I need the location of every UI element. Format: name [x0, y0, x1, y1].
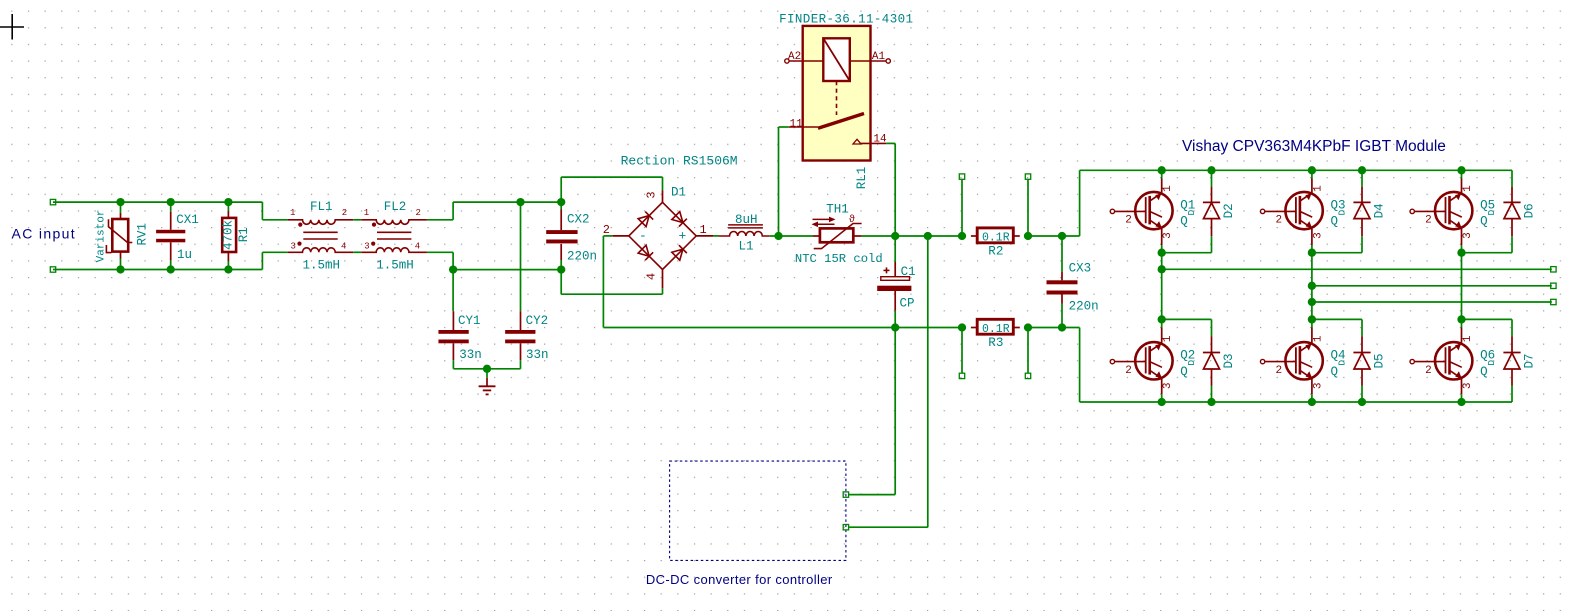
- junction: [1457, 315, 1465, 323]
- junction: [224, 198, 232, 206]
- resistor R3 0.1R: [971, 319, 1020, 334]
- pin numbers Q4: [1276, 335, 1325, 389]
- svg-text:D: D: [1186, 209, 1197, 215]
- inductor FL1: [288, 220, 354, 253]
- wire: [1079, 170, 1081, 236]
- CX2 bottom lead: [560, 244, 562, 270]
- thermistor TH1 NTC: [812, 217, 862, 249]
- wire: [713, 235, 719, 237]
- wire: [561, 176, 662, 178]
- svg-text:11: 11: [790, 119, 804, 131]
- svg-text:1: 1: [1462, 335, 1474, 342]
- wire: [894, 143, 896, 236]
- svg-text:1: 1: [700, 223, 707, 237]
- wire: [1079, 328, 1081, 403]
- junction: [1158, 315, 1166, 323]
- capacitor CX1: [170, 202, 172, 230]
- svg-text:D3: D3: [1222, 353, 1236, 368]
- wire: [961, 328, 963, 373]
- svg-text:Q: Q: [1331, 365, 1339, 379]
- ground: [479, 369, 496, 395]
- transistor Q2: [1110, 328, 1172, 395]
- wire: [927, 236, 929, 527]
- svg-text:FL2: FL2: [384, 200, 407, 214]
- wire: [1461, 245, 1463, 253]
- svg-text:C1: C1: [901, 265, 916, 279]
- junction: [1058, 323, 1066, 331]
- svg-text:Rection RS1506M: Rection RS1506M: [621, 154, 738, 169]
- svg-text:3: 3: [364, 241, 369, 251]
- svg-text:CY2: CY2: [526, 314, 549, 328]
- capacitor C1 CP polarized: [877, 236, 911, 328]
- svg-text:1.5mH: 1.5mH: [303, 258, 341, 272]
- svg-text:D2: D2: [1222, 203, 1236, 218]
- junction: [1158, 166, 1166, 174]
- junction: [1457, 166, 1465, 174]
- wire: [262, 251, 287, 253]
- bridge pin numbers: [603, 191, 707, 280]
- capacitor CX2 220n: [560, 202, 562, 230]
- junction: [1158, 249, 1166, 257]
- wire: [1162, 318, 1212, 320]
- junction: [1207, 398, 1215, 406]
- junction: [483, 365, 491, 373]
- svg-text:1: 1: [1312, 335, 1324, 342]
- wire: [1511, 236, 1513, 253]
- svg-text:1: 1: [1312, 185, 1324, 192]
- bridge polarity marks: [639, 229, 687, 244]
- svg-text:CX2: CX2: [567, 213, 590, 227]
- junction: [891, 323, 899, 331]
- svg-text:NTC 15R cold: NTC 15R cold: [795, 252, 883, 266]
- svg-text:A1: A1: [872, 51, 886, 63]
- terminal stub R2 left: [959, 174, 964, 179]
- junction: [516, 198, 524, 206]
- pin numbers Q1: [1125, 185, 1174, 239]
- svg-text:1: 1: [290, 208, 295, 218]
- pin numbers Q6: [1425, 335, 1474, 389]
- wire: [1027, 328, 1029, 373]
- wire: [262, 219, 287, 221]
- wire: [1211, 236, 1213, 253]
- bridge rectifier D1 Rection RS1506M: [613, 190, 713, 288]
- svg-text:D7: D7: [1523, 353, 1537, 368]
- wire: [662, 177, 664, 190]
- capacitor CY2 plates: [505, 330, 535, 343]
- svg-text:2: 2: [603, 223, 610, 237]
- relay coil: [823, 38, 850, 81]
- terminal phase output 3: [1551, 299, 1556, 304]
- wire: [894, 328, 896, 495]
- junction: [958, 232, 966, 240]
- transistor Q6: [1410, 328, 1472, 395]
- svg-text:ϑ: ϑ: [849, 213, 855, 225]
- wire: [1361, 319, 1363, 336]
- inductor L1 8uH: [719, 225, 770, 236]
- wire: [1312, 318, 1362, 320]
- svg-text:D: D: [1486, 209, 1497, 215]
- wire: [1080, 401, 1512, 403]
- terminal DC-DC pin plus: [843, 525, 848, 530]
- junction: [1358, 166, 1366, 174]
- wire: [1161, 394, 1163, 402]
- relay pin A2: [785, 51, 824, 63]
- pin numbers Q5: [1425, 185, 1474, 239]
- svg-text:470k: 470k: [222, 220, 236, 250]
- junction: [1308, 282, 1316, 290]
- relay switch contact pin 11: [789, 114, 864, 131]
- transistor Q5: [1410, 178, 1472, 245]
- wire: [561, 293, 662, 295]
- svg-text:2: 2: [1276, 215, 1283, 227]
- wire: [1311, 170, 1313, 178]
- svg-text:FL1: FL1: [310, 200, 333, 214]
- relay actuator dashed line: [836, 81, 838, 115]
- svg-text:33n: 33n: [526, 348, 549, 362]
- svg-text:33n: 33n: [459, 348, 482, 362]
- transistor Q3: [1260, 178, 1322, 245]
- wire CX1 bottom lead: [170, 242, 172, 269]
- wire: [1361, 236, 1363, 253]
- svg-text:Vishay CPV363M4KPbF IGBT Modul: Vishay CPV363M4KPbF IGBT Module: [1182, 138, 1446, 155]
- junction: [1207, 166, 1215, 174]
- wire: [961, 180, 963, 236]
- junction: [1024, 323, 1032, 331]
- svg-text:4: 4: [415, 241, 420, 251]
- wire: [1312, 285, 1552, 287]
- wire: [778, 127, 780, 236]
- wire: [662, 288, 664, 294]
- svg-text:D: D: [1486, 360, 1497, 366]
- junction: [1308, 166, 1316, 174]
- svg-text:4: 4: [341, 241, 346, 251]
- svg-text:2: 2: [1425, 215, 1432, 227]
- terminal DC-DC pin minus: [843, 492, 848, 497]
- junction: [116, 265, 124, 273]
- svg-text:1: 1: [1462, 185, 1474, 192]
- wire: [1311, 319, 1313, 327]
- junction: [1158, 265, 1166, 273]
- svg-text:D: D: [1336, 209, 1347, 215]
- wire: [261, 252, 263, 269]
- transistor Q4: [1260, 328, 1322, 395]
- terminal AC line bottom: [50, 267, 55, 272]
- wire: [1211, 386, 1213, 403]
- diode top-right of bridge D1: [672, 212, 687, 227]
- wire: [849, 526, 928, 528]
- wire: [770, 235, 813, 237]
- wire: [1361, 386, 1363, 403]
- pin numbers FL2: [364, 208, 421, 252]
- svg-text:14: 14: [873, 134, 887, 146]
- terminal AC line top: [50, 199, 55, 204]
- wire: [1511, 386, 1513, 403]
- svg-text:D5: D5: [1373, 353, 1387, 368]
- junction: [1058, 232, 1066, 240]
- transistor Q1: [1110, 178, 1172, 245]
- terminal stub R3 right: [1025, 373, 1030, 378]
- capacitor CX1 plates: [156, 230, 185, 243]
- wire: [560, 270, 562, 295]
- wire: [452, 252, 454, 269]
- svg-text:RL1: RL1: [855, 167, 869, 190]
- wire: [779, 126, 789, 128]
- junction: [774, 232, 782, 240]
- junction: [1457, 249, 1465, 257]
- wire: [1361, 170, 1363, 187]
- svg-text:4: 4: [645, 273, 659, 280]
- svg-text:0.1R: 0.1R: [982, 323, 1010, 336]
- terminal stub R2 right: [1025, 174, 1030, 179]
- wire: [603, 235, 612, 237]
- junction: [167, 198, 175, 206]
- terminal stub R3 left: [959, 373, 964, 378]
- wire: [427, 251, 453, 253]
- svg-text:+: +: [679, 229, 687, 244]
- diode D7: [1503, 336, 1520, 385]
- capacitor CY1 33n: [452, 270, 454, 330]
- svg-text:RV1: RV1: [136, 223, 150, 246]
- svg-text:2: 2: [1125, 215, 1132, 227]
- wire: [1027, 180, 1029, 236]
- svg-text:8uH: 8uH: [735, 213, 758, 227]
- wire: [452, 202, 454, 220]
- wire: [1461, 394, 1463, 402]
- svg-text:3: 3: [1462, 382, 1474, 389]
- svg-text:D6: D6: [1523, 203, 1537, 218]
- svg-text:D4: D4: [1373, 203, 1387, 218]
- capacitor CX2 plates: [546, 230, 577, 243]
- wire: [862, 235, 962, 237]
- capacitor CY2 33n: [520, 202, 522, 330]
- wire: [261, 202, 263, 220]
- wire: [603, 327, 962, 329]
- svg-text:3: 3: [645, 191, 659, 198]
- svg-text:3: 3: [1462, 232, 1474, 239]
- wire: [353, 251, 361, 253]
- wire: [849, 494, 895, 496]
- junction: [449, 265, 457, 273]
- svg-text:CP: CP: [900, 297, 915, 311]
- capacitor CY1 plates: [438, 330, 468, 343]
- svg-text:2: 2: [1125, 365, 1132, 377]
- svg-text:FINDER-36.11-4301: FINDER-36.11-4301: [779, 12, 913, 26]
- wire: [1161, 170, 1163, 178]
- wire: [1311, 245, 1313, 253]
- svg-text:2: 2: [416, 208, 421, 218]
- svg-text:R2: R2: [988, 245, 1003, 259]
- svg-text:D1: D1: [671, 185, 686, 199]
- wire: [1312, 301, 1552, 303]
- svg-text:1: 1: [1162, 335, 1174, 342]
- svg-text:Q: Q: [1180, 365, 1188, 379]
- svg-text:220n: 220n: [1069, 300, 1099, 314]
- CY1 bottom lead: [452, 343, 454, 369]
- pin numbers FL1: [290, 208, 347, 252]
- diode D6: [1503, 187, 1520, 236]
- wire: [1028, 235, 1080, 237]
- svg-text:Q: Q: [1180, 215, 1188, 229]
- diode bottom-right of bridge D1: [672, 245, 687, 260]
- junction: [1358, 398, 1366, 406]
- wire: [53, 201, 262, 203]
- diode D4: [1353, 187, 1370, 236]
- svg-text:CX1: CX1: [176, 213, 199, 227]
- junction: [1308, 249, 1316, 257]
- wire: [1162, 252, 1212, 254]
- pin numbers Q2: [1125, 335, 1174, 389]
- relay RL1 FINDER-36.11-4301 body: [803, 26, 871, 161]
- wire: [1311, 253, 1313, 320]
- wire: [1211, 170, 1213, 187]
- junction: [1024, 232, 1032, 240]
- svg-text:0.1R: 0.1R: [982, 232, 1010, 245]
- wire: [453, 269, 561, 271]
- svg-text:CX3: CX3: [1069, 262, 1092, 276]
- wire: [886, 142, 895, 144]
- junction: [1308, 315, 1316, 323]
- relay pin A1: [850, 51, 891, 63]
- svg-text:3: 3: [1162, 232, 1174, 239]
- svg-text:AC input: AC input: [12, 226, 77, 242]
- diode bottom-left of bridge D1: [638, 245, 653, 260]
- svg-text:1: 1: [364, 208, 369, 218]
- varistor RV1: [106, 202, 132, 269]
- pin numbers Q3: [1276, 185, 1325, 239]
- svg-text:Q: Q: [1480, 365, 1488, 379]
- svg-text:L1: L1: [739, 240, 754, 254]
- wire: [1028, 327, 1080, 329]
- relay switch contact pin 14: [853, 134, 887, 146]
- wire: [1161, 253, 1163, 320]
- resistor R1 470k: [222, 202, 236, 269]
- wire: [1162, 268, 1552, 270]
- wire: [1312, 252, 1362, 254]
- svg-text:R1: R1: [237, 227, 251, 242]
- junction: [891, 232, 899, 240]
- svg-text:DC-DC converter for controller: DC-DC converter for controller: [646, 572, 833, 587]
- wire: [1511, 319, 1513, 336]
- wire: [1211, 319, 1213, 336]
- diode D3: [1203, 336, 1220, 385]
- svg-text:3: 3: [1162, 382, 1174, 389]
- diode D5: [1353, 336, 1370, 385]
- junction: [116, 198, 124, 206]
- svg-text:3: 3: [291, 241, 296, 251]
- diode top-left of bridge D1: [638, 212, 653, 227]
- svg-text:D: D: [1336, 360, 1347, 366]
- svg-text:1.5mH: 1.5mH: [376, 258, 414, 272]
- wire: [1461, 170, 1463, 178]
- svg-text:1u: 1u: [177, 248, 192, 262]
- wire: [53, 269, 262, 271]
- wire: [1161, 319, 1163, 327]
- svg-text:2: 2: [342, 208, 347, 218]
- terminal phase output 2: [1551, 283, 1556, 288]
- svg-text:3: 3: [1312, 382, 1324, 389]
- wire: [453, 201, 561, 203]
- wire: [353, 219, 361, 221]
- diode D2: [1203, 187, 1220, 236]
- wire: [453, 368, 520, 370]
- svg-text:Q: Q: [1480, 215, 1488, 229]
- junction: [1308, 298, 1316, 306]
- wire: [1462, 252, 1513, 254]
- svg-text:3: 3: [1312, 232, 1324, 239]
- junction: [224, 265, 232, 273]
- DC-DC converter box: [670, 461, 846, 560]
- sheet origin crosshair: [0, 14, 24, 40]
- junction: [1158, 398, 1166, 406]
- svg-text:A2: A2: [788, 51, 801, 63]
- CX3 bottom lead: [1061, 295, 1063, 328]
- svg-text:1: 1: [1162, 185, 1174, 192]
- wire: [427, 219, 453, 221]
- resistor R2 0.1R: [971, 228, 1020, 243]
- CY2 bottom lead: [520, 343, 522, 369]
- junction: [958, 323, 966, 331]
- svg-text:Q: Q: [1331, 215, 1339, 229]
- svg-text:Varistor: Varistor: [96, 210, 108, 263]
- junction: [924, 232, 932, 240]
- svg-text:CY1: CY1: [458, 314, 481, 328]
- capacitor CX3 220n: [1061, 236, 1063, 280]
- svg-text:2: 2: [1276, 365, 1283, 377]
- svg-text:R3: R3: [988, 336, 1003, 350]
- terminal phase output 1: [1551, 267, 1556, 272]
- wire: [602, 236, 604, 328]
- svg-text:-: -: [639, 229, 647, 244]
- junction: [557, 265, 565, 273]
- wire: [1462, 318, 1513, 320]
- wire: [1161, 245, 1163, 253]
- wire: [1511, 170, 1513, 187]
- wire: [1080, 169, 1512, 171]
- wire: [560, 177, 562, 202]
- junction: [1308, 398, 1316, 406]
- svg-text:TH1: TH1: [826, 203, 849, 217]
- junction: [167, 265, 175, 273]
- junction: [1457, 398, 1465, 406]
- wire: [1461, 253, 1463, 320]
- inductor FL2: [361, 220, 427, 253]
- wire: [1311, 394, 1313, 402]
- svg-text:D: D: [1186, 360, 1197, 366]
- junction: [557, 198, 565, 206]
- svg-text:2: 2: [1425, 365, 1432, 377]
- wire: [1461, 319, 1463, 327]
- svg-text:220n: 220n: [567, 249, 597, 263]
- capacitor CX3 plates: [1047, 280, 1078, 294]
